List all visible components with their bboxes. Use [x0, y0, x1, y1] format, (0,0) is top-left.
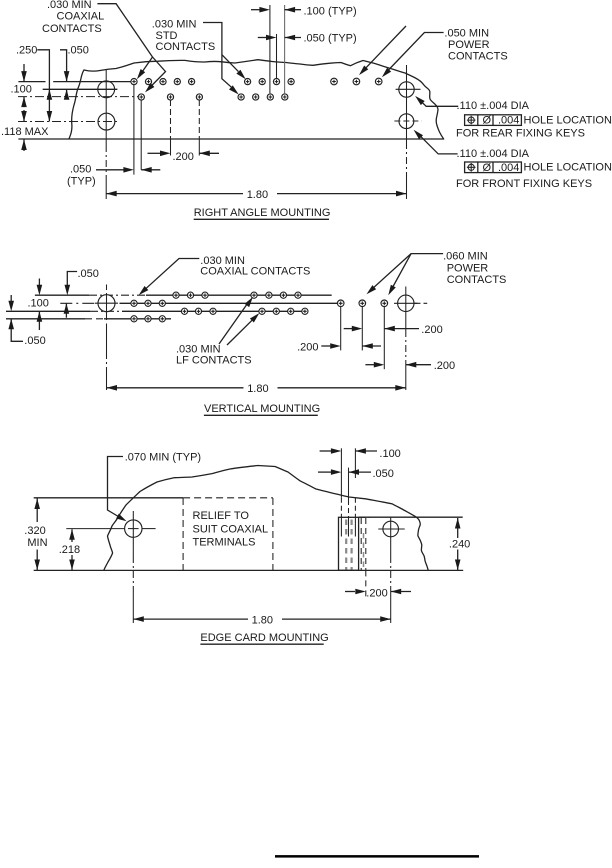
- leader coax contacts: [97, 4, 152, 74]
- board bottom edge w/ extensions: [34, 569, 464, 571]
- row D contacts: [131, 316, 137, 322]
- svg-text:HOLE LOCATION: HOLE LOCATION: [524, 162, 612, 174]
- svg-text:FOR FRONT FIXING KEYS: FOR FRONT FIXING KEYS: [456, 178, 592, 190]
- svg-text:.240: .240: [449, 538, 470, 550]
- svg-text:VERTICAL MOUNTING: VERTICAL MOUNTING: [204, 403, 320, 415]
- board bottom edge with left .118 extension: [18, 138, 444, 140]
- svg-text:TERMINALS: TERMINALS: [193, 536, 256, 548]
- top contact row left group: [131, 79, 137, 85]
- svg-text:.200: .200: [173, 151, 194, 163]
- row C contacts: [181, 308, 187, 314]
- svg-text:.050: .050: [24, 335, 45, 347]
- second contact row right group: [238, 94, 244, 100]
- right front hole horizontal centerline: [394, 120, 421, 122]
- svg-text:1.80: 1.80: [252, 614, 273, 626]
- svg-text:.110 ±.004 DIA: .110 ±.004 DIA: [457, 148, 530, 160]
- svg-text:.100 (TYP): .100 (TYP): [304, 6, 357, 18]
- extension line: top contact row (left): [18, 81, 45, 83]
- top contact row right group: [245, 79, 251, 85]
- svg-text:.100: .100: [28, 297, 49, 309]
- footer bar: [275, 855, 479, 858]
- left mounting hole: [98, 295, 115, 312]
- svg-text:.218: .218: [59, 544, 80, 556]
- svg-text:SUIT COAXIAL: SUIT COAXIAL: [193, 524, 269, 536]
- svg-text:.100: .100: [11, 84, 32, 96]
- lower-left hole horizontal centerline: [18, 121, 117, 123]
- svg-text:.250: .250: [16, 45, 37, 57]
- svg-text:Ø: Ø: [483, 162, 492, 174]
- svg-text:EDGE CARD MOUNTING: EDGE CARD MOUNTING: [200, 632, 328, 644]
- leader std contacts: [203, 23, 232, 88]
- svg-text:.050: .050: [78, 268, 99, 280]
- svg-text:COAXIAL CONTACTS: COAXIAL CONTACTS: [200, 265, 310, 277]
- svg-text:.060 MIN: .060 MIN: [443, 251, 488, 263]
- leader rear fixing hole: [420, 101, 458, 107]
- svg-text:.200: .200: [421, 324, 442, 336]
- power contacts: [331, 78, 338, 85]
- svg-text:POWER: POWER: [448, 39, 490, 51]
- svg-text:.050: .050: [373, 468, 394, 480]
- svg-text:CONTACTS: CONTACTS: [156, 41, 216, 53]
- svg-text:.050 (TYP): .050 (TYP): [304, 32, 357, 44]
- row D line: [6, 318, 85, 320]
- svg-text:.070 MIN (TYP): .070 MIN (TYP): [125, 451, 201, 463]
- fixing key hole left front: [98, 113, 115, 130]
- svg-text:Ø: Ø: [483, 115, 492, 127]
- svg-text:1.80: 1.80: [247, 189, 268, 201]
- feature control frame front: [465, 162, 522, 173]
- svg-text:(TYP): (TYP): [67, 176, 96, 188]
- svg-text:.100: .100: [379, 448, 400, 460]
- slot inner gray strips: [345, 520, 347, 570]
- mounting hole right: [383, 521, 399, 537]
- svg-text:MIN: MIN: [27, 537, 47, 549]
- svg-text:1.80: 1.80: [247, 383, 268, 395]
- svg-text:FOR REAR FIXING KEYS: FOR REAR FIXING KEYS: [456, 127, 585, 139]
- top dim extension lines: [269, 5, 271, 93]
- right hole centerline vertical: [406, 65, 408, 142]
- power contact extension lines: [340, 307, 342, 351]
- board outline (torn-edge PCB profile): [69, 60, 444, 139]
- extension line: hole centerline row: [43, 88, 118, 90]
- fixing key hole right front: [399, 114, 414, 129]
- svg-text:.110 ±.004 DIA: .110 ±.004 DIA: [457, 100, 530, 112]
- coax slot block (solid): [339, 517, 359, 570]
- extension line: second contact row (dash-dot): [18, 96, 138, 98]
- svg-text:.050 MIN: .050 MIN: [444, 28, 489, 40]
- svg-text:.030 MIN: .030 MIN: [152, 19, 197, 31]
- svg-text:STD: STD: [156, 30, 178, 42]
- row C line: [6, 310, 90, 312]
- leader front fixing hole: [418, 134, 458, 154]
- right rear hole horizontal centerline: [396, 88, 421, 90]
- row B contacts: [131, 300, 137, 306]
- relief dashed rectangle: [182, 498, 184, 570]
- svg-text:.118 MAX: .118 MAX: [1, 126, 49, 138]
- svg-text:LF CONTACTS: LF CONTACTS: [176, 354, 252, 366]
- svg-text:.050: .050: [68, 45, 89, 57]
- power contacts (middle): [337, 300, 344, 307]
- mounting hole left: [125, 520, 142, 537]
- fixing key hole right rear: [399, 82, 414, 97]
- svg-text:RELIEF TO: RELIEF TO: [193, 510, 250, 522]
- svg-text:.004: .004: [498, 115, 519, 127]
- feature control frame rear: [465, 115, 522, 126]
- svg-text:.200: .200: [366, 587, 387, 599]
- fixing key hole left rear: [98, 81, 115, 98]
- svg-text:RIGHT ANGLE MOUNTING: RIGHT ANGLE MOUNTING: [194, 207, 331, 219]
- svg-text:CONTACTS: CONTACTS: [448, 51, 508, 63]
- top edge straight segment right of slots: [359, 516, 463, 518]
- row B line (hole centerline): [60, 302, 98, 304]
- svg-text:HOLE LOCATION: HOLE LOCATION: [524, 114, 612, 126]
- svg-text:COAXIAL: COAXIAL: [57, 11, 105, 23]
- svg-text:.320: .320: [24, 525, 45, 537]
- second contact row left group: [138, 94, 144, 100]
- board outline (torn-edge card profile): [104, 466, 428, 571]
- leader power contacts: [388, 33, 444, 71]
- row A line: [35, 294, 89, 296]
- dashed slot right of block: [360, 518, 362, 570]
- svg-text:.030 MIN: .030 MIN: [47, 0, 92, 11]
- svg-text:CONTACTS: CONTACTS: [42, 23, 102, 35]
- svg-text:CONTACTS: CONTACTS: [447, 274, 507, 286]
- slot dimension lines: [340, 448, 342, 497]
- svg-text:.004: .004: [498, 162, 519, 174]
- svg-text:POWER: POWER: [447, 263, 489, 275]
- row A contacts: [173, 292, 179, 298]
- svg-text:.050: .050: [70, 163, 91, 175]
- left hole centerline vertical: [105, 70, 107, 145]
- svg-text:.200: .200: [297, 341, 318, 353]
- svg-text:.200: .200: [434, 360, 455, 372]
- .320 extension line / relief rect top level: [34, 497, 183, 499]
- right mounting hole: [398, 295, 414, 311]
